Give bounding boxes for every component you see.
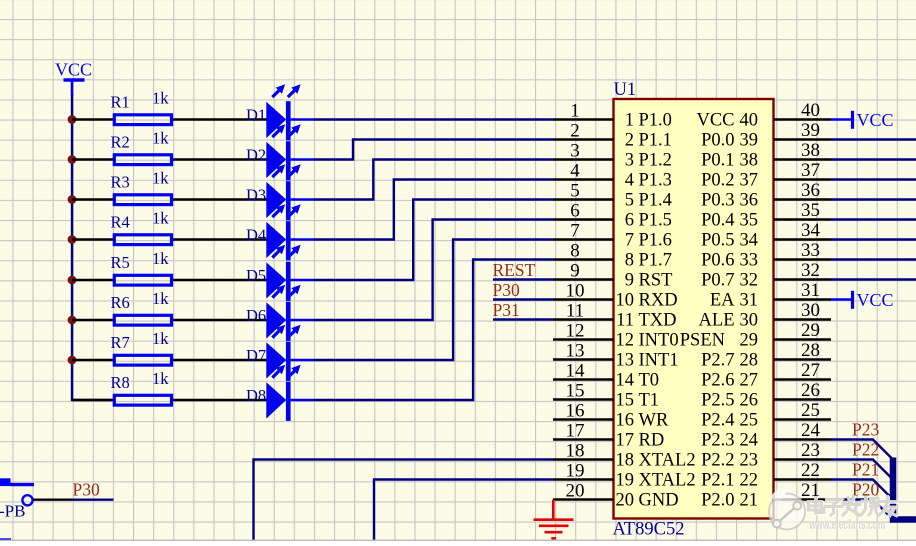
pin 21 P2.0 (right stub) xyxy=(774,480,832,501)
svg-text:40: 40 xyxy=(740,111,759,131)
pin text row 20 xyxy=(616,491,759,511)
svg-text:10: 10 xyxy=(616,291,635,311)
pin 7 P1.6 (left stub) xyxy=(553,221,614,242)
svg-text:35: 35 xyxy=(740,211,759,231)
svg-text:37: 37 xyxy=(740,171,759,191)
wire R8 to D8 xyxy=(173,399,267,401)
svg-text:13: 13 xyxy=(616,351,635,371)
pin 37 P0.2 (right stub) xyxy=(774,160,832,181)
pin text row 1 xyxy=(625,111,758,131)
pin text row 7 xyxy=(625,231,758,251)
pin 11 TXD (left stub) xyxy=(553,301,614,322)
svg-text:19: 19 xyxy=(616,471,635,491)
wire R6 to D6 xyxy=(173,319,267,321)
LED D4 xyxy=(246,204,313,260)
pin text row 10 xyxy=(616,291,759,311)
svg-text:P0.6: P0.6 xyxy=(701,251,734,271)
junction node row R3 xyxy=(68,195,77,204)
pin 19 XTAL2 (left stub) xyxy=(553,461,614,482)
wire net P23 (pin 24) to bus xyxy=(831,440,893,460)
svg-text:T1: T1 xyxy=(639,391,660,411)
power port VCC (top left) xyxy=(55,60,92,97)
resistor R4 1k xyxy=(111,208,172,244)
LED D5 xyxy=(246,245,313,301)
svg-text:1k: 1k xyxy=(152,329,169,348)
pin 39 P0.0 (right stub) xyxy=(774,120,832,141)
svg-text:1k: 1k xyxy=(152,289,169,308)
pin 17 RD (left stub) xyxy=(553,421,614,442)
resistor R5 1k xyxy=(111,249,172,285)
pin 9 RST (left stub) xyxy=(553,261,614,282)
wire D4 to pin4 xyxy=(313,180,553,240)
LED D3 xyxy=(246,164,313,220)
pin text row 4 xyxy=(625,171,758,191)
svg-text:2: 2 xyxy=(625,131,634,151)
svg-text:32: 32 xyxy=(801,260,820,281)
svg-text:26: 26 xyxy=(740,391,759,411)
wire net P31 (pin 11) xyxy=(493,318,553,320)
wire R7 to D7 xyxy=(173,359,267,361)
svg-text:D2: D2 xyxy=(246,145,266,164)
svg-text:2: 2 xyxy=(570,121,580,142)
svg-text:P21: P21 xyxy=(852,460,879,480)
wire VCC to R8 xyxy=(72,399,113,401)
wire net P22 (pin 23) to bus xyxy=(831,460,893,480)
svg-text:P1.5: P1.5 xyxy=(639,211,672,231)
pin 14 T0 (left stub) xyxy=(553,361,614,382)
wire D7 to pin7 xyxy=(313,240,553,361)
svg-text:1k: 1k xyxy=(152,249,169,268)
svg-text:40: 40 xyxy=(801,100,820,121)
pin 28 P2.7 (right stub) xyxy=(774,340,832,361)
svg-text:XTAL2: XTAL2 xyxy=(639,471,696,491)
wire VCC to R2 xyxy=(72,158,113,160)
pin 15 T1 (left stub) xyxy=(553,381,614,402)
svg-text:TXD: TXD xyxy=(639,311,677,331)
svg-text:RXD: RXD xyxy=(639,291,678,311)
resistor R1 1k xyxy=(111,88,172,124)
svg-text:30: 30 xyxy=(740,311,759,331)
svg-text:P0.0: P0.0 xyxy=(701,131,734,151)
wire R3 to D3 xyxy=(173,198,267,200)
svg-text:37: 37 xyxy=(801,160,820,181)
svg-text:27: 27 xyxy=(801,360,820,381)
svg-text:23: 23 xyxy=(801,440,820,461)
svg-text:P1.2: P1.2 xyxy=(639,151,672,171)
svg-text:INT0: INT0 xyxy=(639,331,679,351)
wire P0.6 (pin 33) to right edge xyxy=(831,258,916,260)
svg-text:R1: R1 xyxy=(111,93,130,112)
bus P2 thick line bottom right xyxy=(893,458,916,520)
svg-text:33: 33 xyxy=(801,240,820,261)
wire VCC to R6 xyxy=(72,319,113,321)
LED D8 xyxy=(246,365,313,421)
svg-text:www.elecfans.com: www.elecfans.com xyxy=(809,516,886,532)
svg-text:30: 30 xyxy=(801,300,820,321)
svg-text:15: 15 xyxy=(616,391,635,411)
svg-text:WR: WR xyxy=(639,411,669,431)
svg-text:EA: EA xyxy=(710,291,735,311)
svg-text:38: 38 xyxy=(801,140,820,161)
junction node row R1 xyxy=(68,115,77,124)
svg-text:11: 11 xyxy=(566,301,584,322)
pin 35 P0.4 (right stub) xyxy=(774,200,832,221)
svg-text:39: 39 xyxy=(740,131,759,151)
svg-text:R7: R7 xyxy=(111,333,130,352)
pin 27 P2.6 (right stub) xyxy=(774,360,832,381)
svg-text:P0.2: P0.2 xyxy=(701,171,734,191)
svg-text:P1.0: P1.0 xyxy=(639,111,672,131)
svg-text:9: 9 xyxy=(570,261,580,282)
svg-text:3: 3 xyxy=(625,151,634,171)
svg-text:1: 1 xyxy=(625,111,634,131)
svg-text:11: 11 xyxy=(616,311,634,331)
wire R2 to D2 xyxy=(173,158,267,160)
junction node row R5 xyxy=(68,276,77,285)
svg-text:INT1: INT1 xyxy=(639,351,679,371)
svg-text:R6: R6 xyxy=(111,293,130,312)
svg-text:P23: P23 xyxy=(852,420,879,440)
wire VCC to R3 xyxy=(72,198,113,200)
pin 18 XTAL2 (left stub) xyxy=(553,441,614,462)
pin 25 P2.4 (right stub) xyxy=(774,400,832,421)
svg-text:9: 9 xyxy=(625,271,634,291)
svg-text:P0.1: P0.1 xyxy=(701,151,734,171)
pin 24 P2.3 (right stub) xyxy=(774,420,832,441)
pin 30 ALE (right stub) xyxy=(774,300,832,321)
svg-text:7: 7 xyxy=(625,231,634,251)
pin 4 P1.3 (left stub) xyxy=(553,161,614,182)
wire VCC to R4 xyxy=(72,238,113,240)
resistor R3 1k xyxy=(111,168,172,204)
wire D2 to pin2 xyxy=(313,140,553,160)
svg-text:18: 18 xyxy=(566,441,585,462)
svg-text:14: 14 xyxy=(616,371,635,391)
power port VCC at pin 31 xyxy=(831,290,894,310)
pin text row 13 xyxy=(616,351,759,371)
svg-text:-PB: -PB xyxy=(0,502,25,521)
svg-text:16: 16 xyxy=(616,411,635,431)
svg-text:34: 34 xyxy=(801,220,821,241)
pin 33 P0.6 (right stub) xyxy=(774,240,832,261)
svg-text:P2.7: P2.7 xyxy=(701,351,734,371)
svg-text:1k: 1k xyxy=(152,369,169,388)
LED D6 xyxy=(246,285,313,341)
pin text row 17 xyxy=(616,431,759,451)
svg-text:VCC: VCC xyxy=(696,111,734,131)
LED D1 xyxy=(246,84,313,140)
wire D6 to pin6 xyxy=(313,220,553,321)
svg-text:D1: D1 xyxy=(246,105,266,124)
svg-text:39: 39 xyxy=(801,120,820,141)
svg-text:13: 13 xyxy=(566,341,585,362)
svg-text:P1.6: P1.6 xyxy=(639,231,672,251)
junction node row R4 xyxy=(68,235,77,244)
wire P0.3 (pin 36) to right edge xyxy=(831,198,916,200)
pin 31 EA (right stub) xyxy=(774,280,832,301)
pin text row 2 xyxy=(625,131,758,151)
svg-text:22: 22 xyxy=(801,460,820,481)
LED D2 xyxy=(246,124,313,180)
resistor R7 1k xyxy=(111,329,172,365)
svg-text:P2.0: P2.0 xyxy=(701,491,734,511)
pin 2 P1.1 (left stub) xyxy=(553,121,614,142)
pin text row 18 xyxy=(616,451,759,471)
svg-text:P22: P22 xyxy=(852,440,879,460)
pin 40 VCC (right stub) xyxy=(774,100,832,121)
wire D3 to pin3 xyxy=(313,160,553,200)
svg-text:PSEN: PSEN xyxy=(680,331,725,351)
wire VCC to R5 xyxy=(72,279,113,281)
svg-text:P0.4: P0.4 xyxy=(701,211,734,231)
wire net P20 (pin 21) to bus xyxy=(831,500,893,520)
svg-text:VCC: VCC xyxy=(857,110,894,130)
svg-text:24: 24 xyxy=(801,420,821,441)
svg-text:8: 8 xyxy=(570,241,580,262)
svg-text:1: 1 xyxy=(570,101,580,122)
svg-text:5: 5 xyxy=(570,181,580,202)
junction node row R6 xyxy=(68,316,77,325)
svg-text:P2.2: P2.2 xyxy=(701,451,734,471)
wire P0.5 (pin 34) to right edge xyxy=(831,238,916,240)
svg-text:P2.6: P2.6 xyxy=(701,371,734,391)
pin text row 11 xyxy=(616,311,758,331)
pin text row 16 xyxy=(616,411,759,431)
wire D1 to pin1 xyxy=(313,118,553,120)
svg-text:38: 38 xyxy=(740,151,759,171)
pin text row 19 xyxy=(616,471,759,491)
svg-text:5: 5 xyxy=(625,191,634,211)
wire net P30 (pin 10) xyxy=(493,298,553,300)
wire P0.2 (pin 37) to right edge xyxy=(831,178,916,180)
junction node row R2 xyxy=(68,155,77,164)
svg-text:D8: D8 xyxy=(246,386,266,405)
svg-text:AT89C52: AT89C52 xyxy=(613,520,685,540)
svg-text:12: 12 xyxy=(566,321,585,342)
pin 34 P0.5 (right stub) xyxy=(774,220,832,241)
svg-text:21: 21 xyxy=(740,491,759,511)
resistor R8 1k xyxy=(111,369,172,405)
pin 20 GND (left stub) xyxy=(553,481,614,502)
svg-text:GND: GND xyxy=(639,491,679,511)
wire P0.7 (pin 32) to right edge xyxy=(831,278,916,280)
bottom edge band xyxy=(0,540,916,541)
svg-text:17: 17 xyxy=(566,421,585,442)
pin 13 INT1 (left stub) xyxy=(553,341,614,362)
svg-text:P1.3: P1.3 xyxy=(639,171,672,191)
resistor R6 1k xyxy=(111,289,172,325)
pin text row 5 xyxy=(625,191,758,211)
wire R5 to D5 xyxy=(173,279,267,281)
svg-text:1k: 1k xyxy=(152,208,169,227)
svg-text:U1: U1 xyxy=(614,80,637,100)
LED D7 xyxy=(246,325,313,381)
svg-text:34: 34 xyxy=(740,231,759,251)
svg-text:P1.4: P1.4 xyxy=(639,191,672,211)
svg-text:25: 25 xyxy=(740,411,759,431)
svg-text:7: 7 xyxy=(570,221,580,242)
svg-text:3: 3 xyxy=(570,141,580,162)
svg-text:36: 36 xyxy=(801,180,820,201)
wire D5 to pin5 xyxy=(313,200,553,281)
svg-text:D6: D6 xyxy=(246,306,266,325)
pin 32 P0.7 (right stub) xyxy=(774,260,832,281)
wire VCC to R1 xyxy=(72,118,113,120)
wire R4 to D4 xyxy=(173,238,267,240)
wire pin19 XTAL2 down xyxy=(374,480,553,541)
svg-text:8: 8 xyxy=(625,251,634,271)
svg-text:ALE: ALE xyxy=(699,311,735,331)
pin 16 WR (left stub) xyxy=(553,401,614,422)
pin 38 P0.1 (right stub) xyxy=(774,140,832,161)
svg-text:4: 4 xyxy=(570,161,580,182)
op IC U1 AT89C52 body xyxy=(613,80,774,540)
svg-text:4: 4 xyxy=(625,171,634,191)
pin 36 P0.3 (right stub) xyxy=(774,180,832,201)
svg-text:27: 27 xyxy=(740,371,759,391)
svg-text:D7: D7 xyxy=(246,346,266,365)
wire net P21 (pin 22) to bus xyxy=(831,480,893,500)
svg-text:D4: D4 xyxy=(246,225,266,244)
svg-text:24: 24 xyxy=(740,431,759,451)
svg-text:P2.1: P2.1 xyxy=(701,471,734,491)
watermark text dianzifashaoyou xyxy=(809,497,897,516)
svg-text:18: 18 xyxy=(616,451,635,471)
pin 23 P2.2 (right stub) xyxy=(774,440,832,461)
wire pin18 XTAL2 down-left xyxy=(254,460,554,541)
pin text row 9 xyxy=(625,271,758,291)
svg-text:D5: D5 xyxy=(246,266,266,285)
svg-text:20: 20 xyxy=(616,491,635,511)
wire P0.4 (pin 35) to right edge xyxy=(831,218,916,220)
svg-text:1k: 1k xyxy=(152,88,169,107)
pin 12 INT0 (left stub) xyxy=(553,321,614,342)
svg-text:16: 16 xyxy=(566,401,585,422)
svg-text:VCC: VCC xyxy=(55,60,92,80)
svg-text:19: 19 xyxy=(566,461,585,482)
watermark logo elecfans xyxy=(769,488,805,529)
svg-text:6: 6 xyxy=(570,201,580,222)
pin 8 P1.7 (left stub) xyxy=(553,241,614,262)
svg-text:14: 14 xyxy=(566,361,586,382)
pin 1 P1.0 (left stub) xyxy=(553,101,614,122)
pin text row 8 xyxy=(625,251,758,271)
svg-text:XTAL2: XTAL2 xyxy=(639,451,696,471)
svg-text:23: 23 xyxy=(740,451,759,471)
svg-text:R2: R2 xyxy=(111,133,130,152)
svg-text:T0: T0 xyxy=(639,371,660,391)
svg-text:R4: R4 xyxy=(111,213,130,232)
pin text row 12 xyxy=(616,331,759,351)
svg-text:P0.7: P0.7 xyxy=(701,271,734,291)
svg-text:6: 6 xyxy=(625,211,634,231)
svg-text:R3: R3 xyxy=(111,173,130,192)
wire R1 to D1 xyxy=(173,118,267,120)
power port VCC at pin 40 xyxy=(831,110,894,130)
pin 26 P2.5 (right stub) xyxy=(774,380,832,401)
wire P0.1 (pin 38) to right edge xyxy=(831,158,916,160)
pin 6 P1.5 (left stub) xyxy=(553,201,614,222)
wire VCC rail vertical xyxy=(72,95,114,400)
svg-text:32: 32 xyxy=(740,271,759,291)
svg-text:1k: 1k xyxy=(152,168,169,187)
svg-text:P31: P31 xyxy=(493,300,520,320)
svg-text:29: 29 xyxy=(740,331,759,351)
svg-text:RD: RD xyxy=(639,431,665,451)
wire connector pin xyxy=(33,499,73,501)
svg-text:P0.5: P0.5 xyxy=(701,231,734,251)
pin text row 15 xyxy=(616,391,759,411)
svg-text:26: 26 xyxy=(801,380,820,401)
svg-text:REST: REST xyxy=(493,260,536,280)
svg-text:29: 29 xyxy=(801,320,820,341)
svg-text:36: 36 xyxy=(740,191,759,211)
wire P0.0 (pin 39) to right edge xyxy=(831,138,916,140)
wire net P30 bottom left xyxy=(73,499,114,501)
pin text row 14 xyxy=(616,371,759,391)
pin text row 6 xyxy=(625,211,758,231)
svg-text:10: 10 xyxy=(566,281,585,302)
svg-text:20: 20 xyxy=(566,481,585,502)
svg-text:R8: R8 xyxy=(111,373,130,392)
svg-text:VCC: VCC xyxy=(857,290,894,310)
svg-text:28: 28 xyxy=(801,340,820,361)
pin text row 3 xyxy=(625,151,758,171)
wire D8 to pin8 xyxy=(313,260,553,401)
svg-text:D3: D3 xyxy=(246,185,266,204)
svg-text:P2.5: P2.5 xyxy=(701,391,734,411)
svg-text:15: 15 xyxy=(566,381,585,402)
svg-text:17: 17 xyxy=(616,431,635,451)
svg-text:P1.1: P1.1 xyxy=(639,131,672,151)
pin 22 P2.1 (right stub) xyxy=(774,460,832,481)
svg-text:R5: R5 xyxy=(111,253,130,272)
svg-text:31: 31 xyxy=(801,280,820,301)
pin 10 RXD (left stub) xyxy=(553,281,614,302)
svg-text:12: 12 xyxy=(616,331,635,351)
component fragment bottom left corner xyxy=(0,538,11,541)
svg-text:P30: P30 xyxy=(73,479,100,499)
pin 29 PSEN (right stub) xyxy=(774,320,832,341)
svg-text:P2.4: P2.4 xyxy=(701,411,734,431)
svg-text:P0.3: P0.3 xyxy=(701,191,734,211)
ground symbol at pin 20 xyxy=(534,500,574,539)
svg-text:33: 33 xyxy=(740,251,759,271)
pin 3 P1.2 (left stub) xyxy=(553,141,614,162)
svg-text:P1.7: P1.7 xyxy=(639,251,672,271)
svg-text:22: 22 xyxy=(740,471,759,491)
connector KEY-PB (clipped at left edge) xyxy=(0,478,34,520)
svg-text:P30: P30 xyxy=(493,280,520,300)
junction node row R7 xyxy=(68,356,77,365)
resistor R2 1k xyxy=(111,128,172,164)
svg-text:1k: 1k xyxy=(152,128,169,147)
svg-text:25: 25 xyxy=(801,400,820,421)
svg-text:P2.3: P2.3 xyxy=(701,431,734,451)
svg-text:RST: RST xyxy=(639,271,673,291)
wire VCC to R7 xyxy=(72,359,113,361)
svg-text:28: 28 xyxy=(740,351,759,371)
wire net REST (pin 9) xyxy=(493,278,553,280)
pin 5 P1.4 (left stub) xyxy=(553,181,614,202)
svg-text:31: 31 xyxy=(740,291,759,311)
svg-text:35: 35 xyxy=(801,200,820,221)
